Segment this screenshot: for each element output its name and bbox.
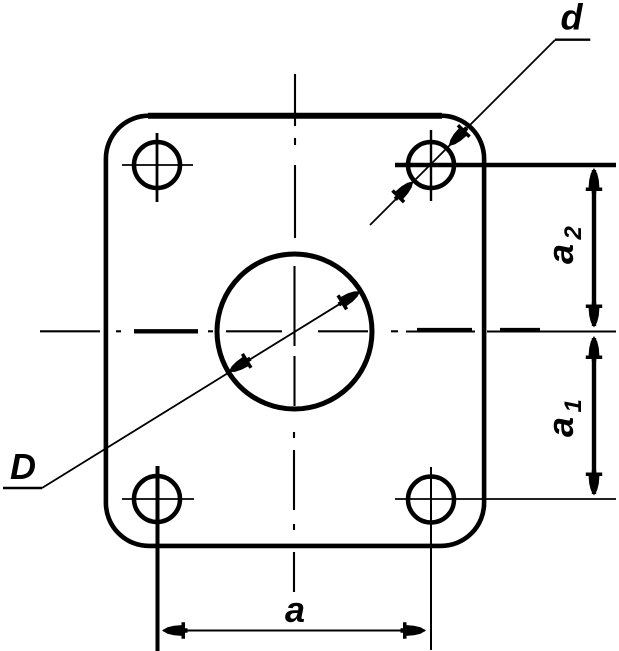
arrow a1 bottom	[586, 470, 602, 496]
extension line a2 top (through hole top-right)	[395, 163, 616, 168]
centerline horizontal dot 2	[208, 330, 213, 332]
centerline horizontal segment 4	[406, 330, 475, 332]
center mark vertical, hole top-left	[156, 133, 159, 202]
arrow d lower	[389, 176, 419, 206]
centerline horizontal segment inside circle right	[318, 330, 368, 332]
centerline horizontal segment inside circle left	[226, 330, 282, 332]
arrow d upper	[443, 122, 473, 152]
centerline horizontal segment 5 thick part	[500, 328, 540, 332]
svg-text:D: D	[10, 446, 36, 487]
plate outline (rounded square flange)	[106, 116, 484, 546]
leader line D (diagonal through bore circle)	[42, 291, 360, 488]
leader line d shoulder	[555, 39, 590, 41]
arrow a right	[401, 622, 427, 638]
bore circle (central hole D)	[217, 254, 372, 409]
dimension line a2	[592, 170, 596, 326]
hole top-left	[134, 142, 180, 188]
svg-text:a1: a1	[540, 399, 587, 437]
centerline vertical dot 2	[293, 432, 295, 438]
arrow D lower	[224, 352, 254, 379]
leader line D shoulder	[3, 487, 42, 489]
centerline horizontal dot 3	[391, 330, 398, 332]
svg-text:d: d	[561, 0, 584, 38]
hole bottom-left	[134, 476, 180, 522]
arrow a left	[162, 622, 188, 638]
arrow a1 top	[586, 336, 602, 362]
dimension line a1	[592, 338, 596, 494]
extension line a1 bottom (through hole bottom-right)	[395, 498, 616, 500]
centerline vertical segment 2	[294, 165, 296, 238]
centerline horizontal thick dash	[134, 329, 198, 333]
centerline vertical segment 3	[293, 450, 295, 510]
extension line a left (through hole bottom-left)	[156, 466, 160, 651]
center mark vertical, hole top-right	[430, 130, 432, 201]
centerline horizontal segment 1	[40, 330, 100, 332]
centerline vertical dot 3	[293, 524, 295, 530]
centerline vertical segment 4	[293, 552, 295, 592]
arrow a2 bottom	[586, 302, 602, 328]
hole top-right	[408, 142, 454, 188]
hole bottom-right	[408, 477, 454, 523]
dimension line a	[163, 630, 425, 632]
centerline vertical segment below center	[293, 356, 295, 406]
leader line d (diagonal through hole top-right)	[370, 40, 555, 225]
center mark horizontal, hole bottom-left	[122, 498, 194, 500]
extension line a right (through hole bottom-right)	[430, 467, 432, 650]
centerline vertical segment 1	[294, 74, 296, 126]
centerline vertical segment inside circle	[293, 266, 295, 346]
arrow D upper	[334, 284, 364, 311]
svg-text:a2: a2	[540, 225, 587, 264]
centerline horizontal dot 1	[116, 330, 121, 332]
svg-text:a: a	[285, 589, 305, 630]
centerline horizontal segment 5	[487, 330, 616, 332]
arrow a2 top	[586, 168, 602, 194]
center mark horizontal, hole top-left	[122, 164, 193, 166]
centerline vertical dot 1	[294, 138, 296, 145]
centerline horizontal segment 4 thick part	[417, 328, 472, 332]
plate outline top edge (heavier)	[148, 113, 442, 119]
